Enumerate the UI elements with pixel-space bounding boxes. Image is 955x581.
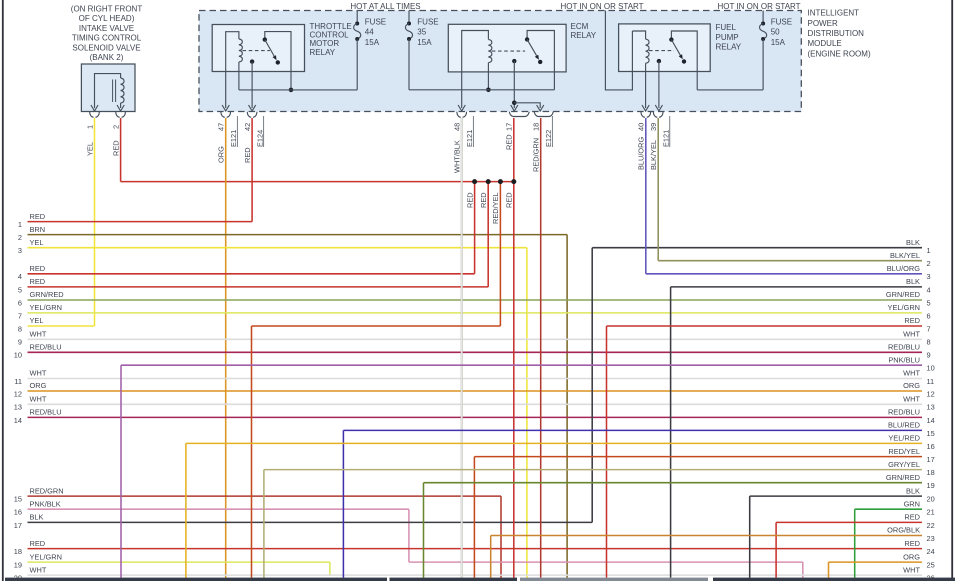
svg-text:15A: 15A (417, 38, 432, 47)
left pin 3 YEL label (18, 238, 44, 255)
svg-text:BLU/RED: BLU/RED (888, 421, 920, 430)
right pin 23 ORG/BLK label (887, 526, 935, 543)
right pin 12 ORG label (903, 381, 935, 398)
svg-text:WHT: WHT (30, 369, 47, 378)
svg-text:YEL: YEL (30, 316, 44, 325)
right pin 8 WHT label (903, 330, 930, 347)
wire BLK right pin 20 (750, 496, 922, 577)
right pin 22 RED label (904, 513, 934, 530)
svg-text:PUMP: PUMP (716, 33, 739, 42)
svg-text:17: 17 (14, 521, 22, 530)
right pin 6 YEL/GRN label (888, 303, 931, 320)
svg-text:11: 11 (14, 377, 22, 386)
bottom component bar segment 1 (5, 578, 387, 581)
svg-text:15A: 15A (365, 38, 380, 47)
svg-text:WHT/BLK: WHT/BLK (453, 140, 462, 173)
throttle relay label (310, 22, 352, 57)
svg-text:44: 44 (365, 28, 374, 37)
right pin 13 WHT label (903, 395, 935, 412)
solenoid header text (71, 5, 143, 63)
svg-text:RED: RED (30, 277, 46, 286)
svg-text:13: 13 (927, 403, 935, 412)
svg-text:RED: RED (243, 147, 252, 163)
svg-text:POWER: POWER (808, 19, 838, 28)
svg-text:1: 1 (927, 246, 931, 255)
left pin 5 RED label (18, 277, 45, 294)
svg-text:ECM: ECM (571, 22, 589, 31)
svg-text:48: 48 (453, 123, 462, 131)
wire BLU/ORG fuel pump pin40 to right pin 3 (646, 118, 922, 274)
svg-text:18: 18 (14, 547, 22, 556)
throttle pin 42 labels (243, 116, 264, 163)
left pin 14 RED/BLU label (14, 408, 62, 425)
svg-text:5: 5 (927, 298, 931, 307)
wire RED/BLU left pin 14 to right pin 14 (28, 416, 923, 418)
svg-text:MODULE: MODULE (808, 39, 842, 48)
fuel pump relay internals: switch (642, 31, 763, 111)
svg-text:TIMING CONTROL: TIMING CONTROL (72, 34, 142, 43)
svg-text:RED: RED (111, 140, 120, 156)
ECM pin 48 labels (453, 116, 474, 173)
wire RED/GRN left pin 15 (28, 496, 502, 577)
wire RED solenoid pin2 vertical (120, 118, 122, 182)
svg-text:15: 15 (927, 429, 935, 438)
svg-text:50: 50 (771, 28, 780, 37)
throttle relay connector arcs (221, 112, 257, 118)
svg-text:18: 18 (927, 468, 935, 477)
wire BRN left pin 2 (28, 235, 568, 578)
svg-text:24: 24 (927, 547, 935, 556)
fuse 44 label (365, 17, 386, 47)
left pin 2 BRN label (18, 225, 45, 242)
wire BLK left pin 17 to right pin 1 (28, 248, 923, 523)
svg-text:GRN/RED: GRN/RED (886, 473, 920, 482)
wire RED left pin 5 to bus (28, 182, 489, 287)
left pin 11 WHT label (14, 369, 46, 386)
svg-text:RED: RED (904, 513, 920, 522)
left pin 1 RED label (18, 212, 45, 229)
svg-text:RELAY: RELAY (716, 42, 742, 51)
wire WHT left pin 13 to right pin 13 (28, 403, 923, 405)
wire BLK/YEL fuel pump pin39 to right pin 2 (658, 118, 922, 261)
svg-text:4: 4 (18, 272, 22, 281)
right pin 10 PNK/BLU label (888, 355, 934, 372)
svg-text:RELAY: RELAY (310, 48, 336, 57)
svg-text:YEL: YEL (30, 238, 44, 247)
throttle pin 47 labels (217, 116, 238, 163)
svg-text:BRN: BRN (30, 225, 46, 234)
svg-text:HOT IN ON OR START: HOT IN ON OR START (560, 2, 643, 11)
solenoid connector arcs (90, 112, 126, 118)
fuel pump relay box (619, 24, 711, 72)
wire RED throttle relay pin42 to left pin 1 (28, 118, 253, 222)
ECM relay internals: coil (409, 31, 554, 109)
right pin 15 BLU/RED label (888, 421, 935, 438)
bus drop labels (465, 192, 513, 224)
wire RED left pin 18 to right pin 24 (28, 548, 923, 550)
svg-text:YEL/GRN: YEL/GRN (888, 303, 920, 312)
svg-text:2: 2 (927, 259, 931, 268)
svg-text:8: 8 (927, 338, 931, 347)
wire YEL/GRN left pin 19 (28, 562, 330, 576)
svg-text:RED/BLU: RED/BLU (888, 343, 920, 352)
fuse 50 (760, 11, 767, 90)
right pin 14 RED/BLU label (888, 408, 935, 425)
svg-text:E122: E122 (544, 130, 553, 147)
svg-text:INTELLIGENT: INTELLIGENT (808, 9, 860, 18)
ECM relay internals: switch (458, 31, 554, 112)
svg-text:DISTRIBUTION: DISTRIBUTION (808, 29, 865, 38)
svg-text:3: 3 (927, 272, 931, 281)
right pin 17 RED/YEL label (888, 447, 934, 464)
ECM relay connector arcs (457, 112, 553, 118)
left pin 8 YEL label (18, 316, 44, 333)
svg-text:BLK: BLK (906, 486, 920, 495)
wire RED right pin 7 (607, 326, 923, 578)
left pin 15 RED/GRN label (14, 486, 64, 503)
right pin 4 BLK label (906, 277, 931, 294)
svg-text:YEL/RED: YEL/RED (888, 434, 920, 443)
svg-text:PNK/BLU: PNK/BLU (888, 355, 920, 364)
svg-text:ORG: ORG (217, 146, 226, 163)
svg-text:E121: E121 (229, 130, 238, 147)
svg-text:14: 14 (14, 416, 22, 425)
left pin 20 WHT label (14, 565, 47, 581)
svg-text:ORG: ORG (903, 381, 920, 390)
wire WHT/BLK ECM pin48 vertical (461, 118, 463, 578)
fuel pump relay internals: coil (632, 31, 649, 108)
left pin 9 WHT label (18, 330, 47, 347)
fuse 50 label (771, 17, 792, 47)
svg-text:(ENGINE ROOM): (ENGINE ROOM) (808, 49, 871, 58)
svg-text:WHT: WHT (30, 395, 47, 404)
svg-text:1: 1 (85, 125, 94, 129)
svg-text:YEL/GRN: YEL/GRN (30, 552, 62, 561)
fuel pump relay label (716, 23, 742, 51)
svg-text:RED: RED (479, 192, 488, 208)
svg-text:RED/BLU: RED/BLU (888, 408, 920, 417)
svg-text:42: 42 (243, 123, 252, 131)
svg-text:RED: RED (505, 192, 514, 208)
svg-text:BLK/YEL: BLK/YEL (890, 251, 920, 260)
right pin 11 WHT label (903, 369, 934, 386)
wire WHT left pin 9 to right pin 8 (28, 338, 923, 340)
svg-text:25: 25 (927, 561, 935, 570)
svg-text:BLK: BLK (30, 513, 44, 522)
wire BLK right pin 4 (671, 287, 922, 578)
svg-text:RED/BLU: RED/BLU (30, 408, 62, 417)
ECM pin 17 labels (505, 123, 514, 150)
svg-text:BLK/YEL: BLK/YEL (649, 140, 658, 170)
bottom component bar segment 2 (390, 578, 518, 581)
wire ORG right pin 25 (829, 562, 923, 578)
svg-text:WHT: WHT (903, 369, 920, 378)
svg-text:ORG: ORG (30, 381, 47, 390)
bottom component bar segment 3 (gray) (520, 578, 708, 581)
svg-text:11: 11 (927, 377, 935, 386)
left pin 10 RED/BLU label (14, 343, 62, 360)
right page border (951, 0, 953, 581)
svg-text:E124: E124 (255, 130, 264, 147)
wire RED/YEL right pin 17 (474, 457, 922, 578)
svg-text:17: 17 (505, 123, 514, 131)
svg-text:40: 40 (637, 123, 646, 131)
svg-text:FUSE: FUSE (417, 17, 438, 26)
svg-text:19: 19 (14, 561, 22, 570)
svg-text:GRY/YEL: GRY/YEL (888, 460, 920, 469)
ECM pin 18 labels (532, 116, 553, 172)
svg-text:HOT IN ON OR START: HOT IN ON OR START (717, 2, 800, 11)
svg-text:6: 6 (927, 311, 931, 320)
svg-text:2: 2 (111, 125, 120, 129)
wire RED bus horizontal to ECM pin17 (121, 181, 514, 183)
ECM relay box (448, 24, 566, 72)
svg-text:5: 5 (18, 285, 22, 294)
left pin 18 RED label (14, 539, 45, 556)
wire YEL left pin 3 (28, 248, 527, 578)
right pin 20 BLK label (906, 486, 935, 503)
svg-text:9: 9 (18, 338, 22, 347)
right pin 7 RED label (904, 316, 930, 333)
wire RED right pin 22 (776, 522, 922, 577)
svg-text:RED/GRN: RED/GRN (532, 138, 541, 172)
svg-text:ORG/BLK: ORG/BLK (887, 526, 920, 535)
right pin 26 WHT label (903, 565, 935, 581)
svg-text:RED: RED (30, 539, 46, 548)
svg-text:10: 10 (14, 351, 22, 360)
svg-text:GRN/RED: GRN/RED (886, 290, 920, 299)
svg-text:HOT AT ALL TIMES: HOT AT ALL TIMES (350, 2, 420, 11)
svg-text:RED/GRN: RED/GRN (30, 486, 64, 495)
svg-text:26: 26 (927, 574, 935, 581)
svg-text:1: 1 (18, 220, 22, 229)
svg-text:21: 21 (927, 508, 935, 517)
svg-text:RED: RED (904, 539, 920, 548)
svg-text:E121: E121 (465, 130, 474, 147)
wire RED/GRN ECM pin18 vertical (540, 118, 542, 578)
svg-text:WHT: WHT (903, 330, 920, 339)
svg-text:YEL: YEL (85, 142, 94, 156)
wire GRY/YEL right pin 18 (264, 470, 922, 578)
wire RED/YEL bus drop (252, 182, 501, 578)
svg-text:BLU/ORG: BLU/ORG (637, 136, 646, 170)
left page border (2, 0, 4, 581)
svg-text:YEL/GRN: YEL/GRN (30, 303, 62, 312)
svg-text:RED: RED (505, 134, 514, 150)
svg-text:16: 16 (927, 442, 935, 451)
svg-text:GRN: GRN (904, 499, 920, 508)
bottom component bar segment 4 (713, 578, 955, 581)
wire GRN/RED left pin 6 to right pin 5 (28, 299, 923, 301)
junction dots on RED bus (472, 179, 516, 184)
solenoid valve internals (91, 74, 124, 111)
svg-text:ORG: ORG (903, 552, 920, 561)
svg-text:WHT: WHT (30, 330, 47, 339)
solenoid pin 2 labels (111, 125, 120, 156)
svg-text:RED/BLU: RED/BLU (30, 343, 62, 352)
svg-text:20: 20 (14, 574, 22, 581)
svg-text:3: 3 (18, 246, 22, 255)
svg-text:18: 18 (532, 123, 541, 131)
fuse 35 label (417, 17, 438, 47)
svg-text:RED/YEL: RED/YEL (888, 447, 920, 456)
left pin 16 PNK/BLK label (14, 499, 61, 516)
wire YEL solenoid pin1 to left pin 8 (28, 118, 95, 326)
svg-text:8: 8 (18, 324, 22, 333)
svg-text:12: 12 (927, 389, 935, 398)
right pin 9 RED/BLU label (888, 343, 931, 360)
svg-text:WHT: WHT (30, 565, 47, 574)
wire PNK/BLK left pin 16 (28, 509, 803, 577)
svg-text:WHT: WHT (903, 565, 920, 574)
svg-text:19: 19 (927, 481, 935, 490)
svg-text:12: 12 (14, 389, 22, 398)
svg-text:9: 9 (927, 351, 931, 360)
svg-text:GRN/RED: GRN/RED (30, 290, 64, 299)
wire GRN/RED right pin 19 (424, 483, 923, 578)
svg-text:RELAY: RELAY (571, 31, 597, 40)
fuse 44 (354, 11, 361, 90)
svg-text:23: 23 (927, 534, 935, 543)
right pin 5 GRN/RED label (886, 290, 931, 307)
svg-text:WHT: WHT (903, 395, 920, 404)
svg-text:FUSE: FUSE (771, 17, 792, 26)
svg-text:20: 20 (927, 495, 935, 504)
right pin 2 BLK/YEL label (890, 251, 931, 268)
wire GRN right pin 21 (855, 509, 922, 577)
svg-text:47: 47 (217, 123, 226, 131)
left pin 12 ORG label (14, 381, 47, 398)
fuel pump relay connector arcs (641, 112, 663, 118)
svg-text:15: 15 (14, 495, 22, 504)
svg-text:RED: RED (30, 264, 46, 273)
wire YEL/GRN left pin 7 to right pin 6 (28, 312, 923, 314)
wire PNK/BLU right pin 10 (121, 365, 922, 577)
svg-text:PNK/BLK: PNK/BLK (30, 499, 61, 508)
svg-text:(BANK 2): (BANK 2) (90, 53, 124, 62)
right pin 1 BLK label (906, 238, 931, 255)
intake valve timing control solenoid valve box (81, 64, 135, 112)
right pin 16 YEL/RED label (888, 434, 934, 451)
left pin 6 GRN/RED label (18, 290, 64, 307)
wire YEL/RED right pin 16 (186, 443, 922, 577)
svg-text:7: 7 (18, 311, 22, 320)
svg-text:FUEL: FUEL (716, 23, 737, 32)
svg-text:E121: E121 (661, 130, 670, 147)
ECM relay label (571, 22, 597, 40)
svg-text:22: 22 (927, 521, 935, 530)
wire ORG/BLK right pin 23 (491, 536, 922, 578)
left pin 4 RED label (18, 264, 45, 281)
wire RED left pin 4 to bus (28, 182, 475, 274)
wire BLU/RED right pin 15 (343, 430, 922, 577)
svg-text:13: 13 (14, 403, 22, 412)
right pin 18 GRY/YEL label (888, 460, 935, 477)
right pin 24 RED label (904, 539, 934, 556)
fuse 35 (405, 11, 412, 90)
throttle relay internals: switch (222, 32, 357, 111)
svg-text:INTAKE VALVE: INTAKE VALVE (79, 24, 134, 33)
throttle control motor relay box (212, 25, 304, 72)
IPDM dashed box (ENGINE ROOM) (199, 11, 801, 112)
left pin 17 BLK label (14, 513, 44, 530)
IPDM label (808, 9, 871, 59)
right pin 21 GRN label (904, 499, 935, 516)
wire WHT left pin 20 to right pin 26 (28, 574, 923, 576)
wire RED/BLU left pin 10 to right pin 9 (28, 351, 923, 353)
wire ORG throttle relay pin47 vertical (225, 118, 227, 578)
svg-text:39: 39 (649, 123, 658, 131)
fuel pump pin 40 labels (637, 123, 646, 170)
fuel pump relay riser (hot in on or start) (605, 11, 632, 90)
svg-text:17: 17 (927, 455, 935, 464)
svg-text:BLK: BLK (906, 238, 920, 247)
left pin 7 YEL/GRN label (18, 303, 62, 320)
svg-text:RED: RED (904, 316, 920, 325)
solenoid pin 1 labels (85, 125, 94, 156)
right pin 3 BLU/ORG label (887, 264, 931, 281)
left pin 13 WHT label (14, 395, 47, 412)
svg-text:FUSE: FUSE (365, 17, 386, 26)
svg-text:BLK: BLK (906, 277, 920, 286)
svg-text:16: 16 (14, 508, 22, 517)
svg-text:SOLENOID VALVE: SOLENOID VALVE (72, 43, 140, 52)
svg-text:6: 6 (18, 298, 22, 307)
svg-text:15A: 15A (771, 38, 786, 47)
right pin 25 ORG label (903, 552, 935, 569)
left pin 19 YEL/GRN label (14, 552, 62, 569)
svg-text:14: 14 (927, 416, 935, 425)
svg-text:10: 10 (927, 364, 935, 373)
fuel pump pin 39 labels (649, 116, 670, 170)
svg-text:RED/YEL: RED/YEL (491, 192, 500, 224)
wire WHT left pin 11 to right pin 11 (28, 378, 923, 380)
svg-text:7: 7 (927, 324, 931, 333)
throttle relay internals: coil (226, 32, 243, 108)
wire RED ECM pin17 vertical (513, 118, 515, 578)
svg-text:OF CYL HEAD): OF CYL HEAD) (79, 14, 135, 23)
svg-text:RED: RED (30, 212, 46, 221)
svg-text:4: 4 (927, 285, 931, 294)
wire ORG left pin 12 to right pin 12 (28, 390, 923, 392)
right pin 19 GRN/RED label (886, 473, 935, 490)
svg-text:BLU/ORG: BLU/ORG (887, 264, 921, 273)
svg-text:35: 35 (417, 28, 426, 37)
svg-text:RED: RED (465, 192, 474, 208)
svg-text:2: 2 (18, 233, 22, 242)
svg-text:(ON RIGHT FRONT: (ON RIGHT FRONT (71, 5, 143, 14)
